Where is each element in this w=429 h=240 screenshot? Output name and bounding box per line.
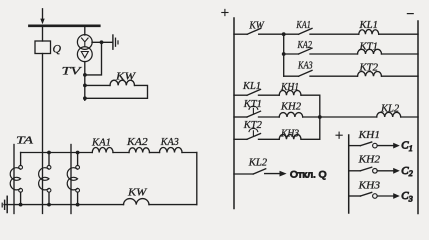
svg-text:KA2: KA2 <box>297 40 313 51</box>
relay coil KA1 <box>92 148 113 153</box>
label KA2 (contact) <box>297 40 313 51</box>
svg-text:KA2: KA2 <box>126 137 149 148</box>
junction (CT3 top) <box>76 151 80 155</box>
contact KH3 (signal) <box>349 192 400 199</box>
label KW (contact) <box>248 21 264 32</box>
current transformer TA phase C <box>67 145 79 214</box>
wire KA branch <box>283 34 285 76</box>
label TV <box>62 65 84 77</box>
contact KL2 <box>234 169 266 174</box>
signal output C2 <box>401 165 413 178</box>
label KA3 <box>160 137 179 148</box>
junction (CT2 bottom) <box>47 203 51 207</box>
svg-text:KW: KW <box>248 21 264 32</box>
busbar <box>29 24 99 27</box>
svg-text:KT2: KT2 <box>358 63 378 74</box>
relay coil KW (voltage winding) <box>85 80 148 98</box>
contact KA3 <box>284 70 312 76</box>
label + (left rail) <box>222 9 228 15</box>
label KT2 (coil) <box>358 63 378 74</box>
wire KA2 to KT1 coil <box>310 53 358 55</box>
signal output C3 <box>401 190 413 203</box>
label KA2 <box>126 137 149 148</box>
wire CT secondaries to KA coils <box>21 152 197 154</box>
wire busbar to TV <box>84 27 86 35</box>
junction (secondary top) <box>83 73 87 77</box>
current transformer TA phase B (secondary) <box>39 153 51 205</box>
relay coil KL1 <box>359 29 379 34</box>
svg-text:1: 1 <box>409 144 413 153</box>
svg-text:2: 2 <box>409 169 413 178</box>
label KH1 (contact) <box>358 130 380 141</box>
wire busbar to Q <box>42 27 44 41</box>
junction (KH join) <box>318 115 322 119</box>
label KT1 (coil) <box>358 41 378 52</box>
label KH3 (contact) <box>358 180 380 191</box>
contact KT1 (time delay) <box>234 106 261 117</box>
label − (right rail) <box>407 13 413 15</box>
wire KH2 coil to KL2 coil <box>303 116 377 118</box>
wire junction to TV secondary <box>85 42 102 75</box>
relay coil KH2 <box>279 112 303 117</box>
relay coil KT1 <box>358 49 382 54</box>
svg-text:KH1: KH1 <box>280 82 299 93</box>
positive rail <box>233 18 235 209</box>
label KA1 <box>91 137 111 148</box>
label KL1 (contact) <box>242 81 261 92</box>
label KA1 (contact) <box>296 20 311 31</box>
svg-text:TV: TV <box>62 65 84 77</box>
wire KL1 coil to negative rail <box>379 33 418 35</box>
label KT2 (contact) <box>243 120 263 131</box>
relay coil KH1 <box>279 90 301 95</box>
svg-text:KA3: KA3 <box>160 137 179 148</box>
svg-text:KL2: KL2 <box>380 103 400 114</box>
contact KT2 (time delay) <box>234 128 261 139</box>
ground (CT star point) <box>2 196 7 212</box>
signal bus <box>348 135 350 213</box>
contact KH1 (signal) <box>349 142 400 149</box>
svg-text:KW: KW <box>127 187 148 198</box>
label KH3 (coil) <box>280 128 299 139</box>
svg-text:KL1: KL1 <box>242 81 261 92</box>
label + (signal bus) <box>336 132 342 138</box>
junction (KA branch mid) <box>282 52 286 56</box>
trip arrow to Q <box>265 171 287 177</box>
svg-text:KH3: KH3 <box>280 128 299 139</box>
wire KL1 contact to KH1 coil <box>259 94 280 96</box>
label KH2 (contact) <box>358 155 381 166</box>
svg-text:TA: TA <box>16 135 33 147</box>
junction (CT1 bottom) <box>19 203 23 207</box>
svg-text:KH1: KH1 <box>358 130 380 141</box>
relay coil KL2 <box>377 112 401 117</box>
svg-text:KT1: KT1 <box>358 41 378 52</box>
wire KH3 coil to join <box>301 117 320 139</box>
contact KL1 <box>234 89 261 95</box>
svg-text:Откл. Q: Откл. Q <box>290 170 327 180</box>
junction (secondary bottom) <box>83 96 87 100</box>
junction (secondary mid) <box>83 84 87 88</box>
label KL2 (contact) <box>248 157 268 168</box>
signal output C1 <box>401 140 413 153</box>
label KW (voltage coil) <box>115 71 137 82</box>
wire KT2 contact to KH3 coil <box>259 138 280 140</box>
svg-text:KL2: KL2 <box>248 157 268 168</box>
relay coil KH3 <box>279 135 301 140</box>
wire KH1 coil to join <box>301 95 320 117</box>
wire KA3 to KT2 coil <box>310 75 358 77</box>
junction (CT2 top) <box>47 151 51 155</box>
svg-text:KL1: KL1 <box>358 20 378 31</box>
label KH2 (coil) <box>280 102 302 113</box>
junction (CT3 bottom) <box>76 203 80 207</box>
supply line with arrow <box>40 9 44 24</box>
label KL1 (coil) <box>358 20 378 31</box>
wire KT1 contact to KH2 coil <box>259 116 280 118</box>
label KH1 (coil) <box>280 82 299 93</box>
svg-text:KH2: KH2 <box>358 155 381 166</box>
svg-text:KA1: KA1 <box>296 20 311 31</box>
relay coil KT2 <box>358 71 382 76</box>
voltage transformer TV <box>77 35 92 62</box>
svg-text:KT1: KT1 <box>243 99 262 110</box>
label KL2 (coil) <box>380 103 400 114</box>
label Откл. Q <box>290 170 327 180</box>
label TA <box>16 135 33 147</box>
relay coil KA3 <box>160 148 183 153</box>
svg-text:KH3: KH3 <box>358 180 380 191</box>
circuit breaker Q <box>35 41 51 54</box>
relay coil KW (current winding) <box>124 199 150 205</box>
svg-text:KH2: KH2 <box>280 102 302 113</box>
wire current loop right side <box>196 153 198 205</box>
label Q <box>53 42 62 56</box>
wire KT1 coil to negative rail <box>382 53 419 55</box>
junction on TV-ground wire <box>100 40 104 44</box>
wire KA1 to KL1 coil <box>310 33 359 35</box>
label KW (current coil) <box>127 187 148 198</box>
current transformer TA phase A <box>10 145 22 214</box>
wire KW to KA1 <box>259 33 299 35</box>
relay coil KA2 <box>129 148 150 153</box>
svg-text:KW: KW <box>115 71 137 82</box>
label KT1 (contact) <box>243 99 262 110</box>
return wire to ground <box>4 204 197 206</box>
svg-text:KA1: KA1 <box>91 137 111 148</box>
svg-text:KT2: KT2 <box>243 120 263 131</box>
feeder wire from Q (phase B primary) <box>42 54 44 214</box>
svg-text:KA3: KA3 <box>297 61 312 72</box>
contact KA1 <box>299 28 313 34</box>
contact KH2 (signal) <box>349 167 400 174</box>
contact KW <box>234 28 261 34</box>
negative rail <box>417 21 419 214</box>
TV secondary lead <box>84 62 86 101</box>
wire KL2 coil to negative rail <box>401 116 418 118</box>
wire TV to ground <box>92 41 113 43</box>
junction (KA branch top) <box>282 32 286 36</box>
ground (TV neutral) <box>113 35 118 49</box>
svg-text:Q: Q <box>53 42 62 56</box>
wire KT2 coil to negative rail <box>382 75 419 77</box>
contact KA2 <box>284 48 312 54</box>
svg-text:3: 3 <box>408 194 413 203</box>
label KA3 (contact) <box>297 61 312 72</box>
